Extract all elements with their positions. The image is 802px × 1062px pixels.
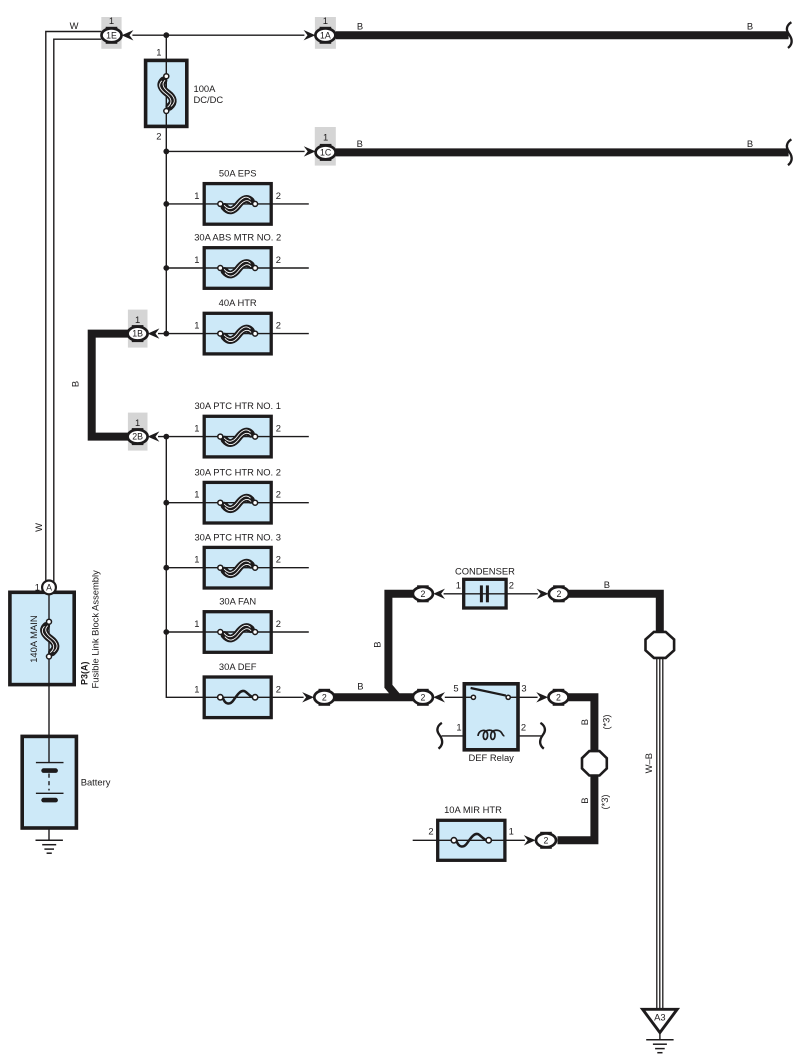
svg-text:B: B bbox=[357, 138, 363, 149]
svg-text:2: 2 bbox=[428, 826, 433, 837]
svg-text:2: 2 bbox=[276, 554, 281, 565]
svg-text:2: 2 bbox=[276, 190, 281, 201]
svg-text:2: 2 bbox=[276, 683, 281, 694]
svg-text:B: B bbox=[357, 21, 363, 32]
svg-text:A3: A3 bbox=[654, 1012, 665, 1023]
svg-text:B: B bbox=[371, 641, 382, 647]
svg-text:W: W bbox=[33, 523, 44, 532]
svg-text:1: 1 bbox=[456, 721, 461, 732]
svg-text:(*3): (*3) bbox=[599, 794, 610, 809]
svg-text:1: 1 bbox=[35, 581, 40, 592]
svg-text:10A MIR HTR: 10A MIR HTR bbox=[444, 804, 502, 815]
svg-text:2: 2 bbox=[156, 131, 161, 142]
svg-text:100A: 100A bbox=[194, 83, 217, 94]
svg-text:2: 2 bbox=[509, 580, 514, 591]
svg-text:1: 1 bbox=[194, 254, 199, 265]
svg-text:2: 2 bbox=[544, 835, 549, 845]
svg-text:(*3): (*3) bbox=[601, 715, 612, 730]
svg-text:1: 1 bbox=[194, 554, 199, 565]
svg-text:3: 3 bbox=[521, 682, 526, 693]
svg-text:DEF Relay: DEF Relay bbox=[469, 752, 515, 763]
svg-text:2B: 2B bbox=[132, 432, 143, 442]
svg-text:5: 5 bbox=[453, 682, 458, 693]
svg-text:1B: 1B bbox=[132, 329, 143, 339]
svg-text:30A PTC HTR NO. 2: 30A PTC HTR NO. 2 bbox=[194, 466, 280, 477]
svg-text:P3(A): P3(A) bbox=[80, 661, 90, 685]
svg-text:B: B bbox=[747, 21, 753, 32]
svg-text:30A ABS MTR NO. 2: 30A ABS MTR NO. 2 bbox=[194, 232, 281, 243]
svg-text:2: 2 bbox=[276, 320, 281, 331]
svg-text:B: B bbox=[357, 681, 363, 692]
svg-text:40A HTR: 40A HTR bbox=[219, 297, 257, 308]
svg-text:2: 2 bbox=[521, 721, 526, 732]
svg-text:1: 1 bbox=[194, 423, 199, 434]
svg-text:B: B bbox=[604, 579, 610, 590]
svg-text:Fusible Link Block Assembly: Fusible Link Block Assembly bbox=[90, 570, 101, 689]
svg-text:140A MAIN: 140A MAIN bbox=[28, 615, 39, 662]
svg-text:2: 2 bbox=[276, 618, 281, 629]
svg-text:2: 2 bbox=[276, 489, 281, 500]
svg-text:W: W bbox=[70, 20, 79, 31]
svg-text:2: 2 bbox=[420, 692, 425, 702]
svg-text:1: 1 bbox=[135, 417, 140, 428]
svg-text:B: B bbox=[579, 719, 590, 725]
svg-text:B: B bbox=[70, 381, 81, 387]
svg-text:1: 1 bbox=[509, 826, 514, 837]
svg-text:1: 1 bbox=[456, 580, 461, 591]
svg-text:B: B bbox=[747, 138, 753, 149]
svg-text:2: 2 bbox=[276, 254, 281, 265]
svg-text:1: 1 bbox=[156, 47, 161, 58]
svg-text:1: 1 bbox=[194, 320, 199, 331]
svg-text:2: 2 bbox=[556, 692, 561, 702]
svg-text:30A PTC HTR NO. 1: 30A PTC HTR NO. 1 bbox=[194, 400, 280, 411]
svg-text:W–B: W–B bbox=[643, 753, 654, 773]
svg-text:B: B bbox=[579, 797, 590, 803]
svg-text:30A PTC HTR NO. 3: 30A PTC HTR NO. 3 bbox=[194, 531, 280, 542]
svg-text:1: 1 bbox=[323, 131, 328, 142]
svg-text:2: 2 bbox=[556, 589, 561, 599]
svg-text:1C: 1C bbox=[320, 148, 332, 158]
svg-text:1: 1 bbox=[135, 314, 140, 325]
svg-text:CONDENSER: CONDENSER bbox=[455, 565, 515, 576]
svg-text:2: 2 bbox=[322, 692, 327, 702]
svg-text:1: 1 bbox=[194, 489, 199, 500]
svg-text:1A: 1A bbox=[320, 30, 331, 40]
svg-text:30A FAN: 30A FAN bbox=[219, 596, 256, 607]
svg-text:Battery: Battery bbox=[81, 777, 111, 788]
svg-text:50A EPS: 50A EPS bbox=[219, 168, 257, 179]
svg-text:1: 1 bbox=[194, 683, 199, 694]
svg-text:1: 1 bbox=[194, 618, 199, 629]
svg-text:1E: 1E bbox=[106, 30, 117, 40]
svg-text:A: A bbox=[46, 583, 52, 593]
svg-text:1: 1 bbox=[323, 15, 328, 26]
svg-text:DC/DC: DC/DC bbox=[194, 94, 224, 105]
svg-text:30A DEF: 30A DEF bbox=[219, 661, 257, 672]
svg-text:2: 2 bbox=[276, 423, 281, 434]
svg-text:1: 1 bbox=[109, 15, 114, 26]
svg-text:1: 1 bbox=[194, 190, 199, 201]
svg-text:2: 2 bbox=[420, 589, 425, 599]
